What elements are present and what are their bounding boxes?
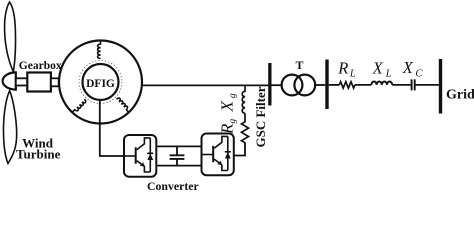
transformer T (left winding) [282, 75, 303, 96]
svg-text:Xg: Xg [218, 93, 238, 112]
capacitor XC plates [412, 79, 415, 90]
wire DFIG stator to left bus [142, 84, 268, 86]
resistor RL (zigzag) [339, 82, 355, 88]
gearbox [27, 73, 51, 92]
wire transformer to right bus [315, 84, 325, 86]
shaft gearbox-DFIG [51, 78, 59, 86]
shaft hub-gearbox [16, 78, 27, 85]
svg-text:XL: XL [372, 59, 392, 80]
DFIG outer circle [59, 41, 142, 124]
converter RSC (left box with IGBT) [124, 135, 156, 177]
DFIG winding (lower-left) [73, 99, 87, 114]
DFIG rotor dotted circle [79, 61, 122, 104]
wind turbine blade (upper) [5, 2, 16, 72]
bus bar (left of transformer) [268, 63, 271, 106]
svg-text:Grid: Grid [446, 88, 474, 103]
transformer T (right winding) [294, 75, 315, 96]
wind turbine blade (lower) [3, 91, 16, 164]
svg-text:DFIG: DFIG [86, 78, 115, 90]
svg-text:Converter: Converter [147, 179, 199, 191]
bus bar (right of transformer) [325, 60, 328, 110]
converter GSC (right box with IGBT) [202, 134, 234, 176]
wire RL to XL [355, 84, 372, 86]
wire XL to XC [392, 84, 411, 86]
inductor XL (coil) [371, 82, 392, 85]
wire DFIG rotor down [100, 100, 124, 156]
svg-text:Rg: Rg [218, 119, 238, 135]
svg-text:RL: RL [337, 59, 356, 80]
DFIG winding (top) [98, 41, 101, 59]
DC link capacitor plates [170, 155, 185, 159]
DFIG inner circle [83, 64, 119, 100]
svg-text:XC: XC [402, 58, 424, 80]
wire GSC output to filter branch [234, 143, 245, 156]
svg-text:GSC Filter: GSC Filter [253, 86, 268, 147]
DC link top wire [156, 145, 201, 147]
DC link bottom wire [156, 165, 201, 167]
wire XC to grid bus [416, 84, 439, 86]
DC link capacitor lead [176, 146, 178, 165]
wire bus to RL [329, 84, 340, 86]
svg-text:Gearbox: Gearbox [19, 60, 62, 72]
bus bar Grid [439, 59, 442, 114]
wind turbine hub [3, 72, 16, 89]
DFIG winding (lower-right) [117, 97, 131, 112]
svg-text:Turbine: Turbine [16, 147, 61, 162]
svg-text:T: T [295, 58, 303, 72]
resistor Rg (vertical zigzag) [242, 113, 249, 143]
inductor Xg (vertical coil) [242, 85, 245, 113]
wire bus to transformer [272, 84, 283, 86]
